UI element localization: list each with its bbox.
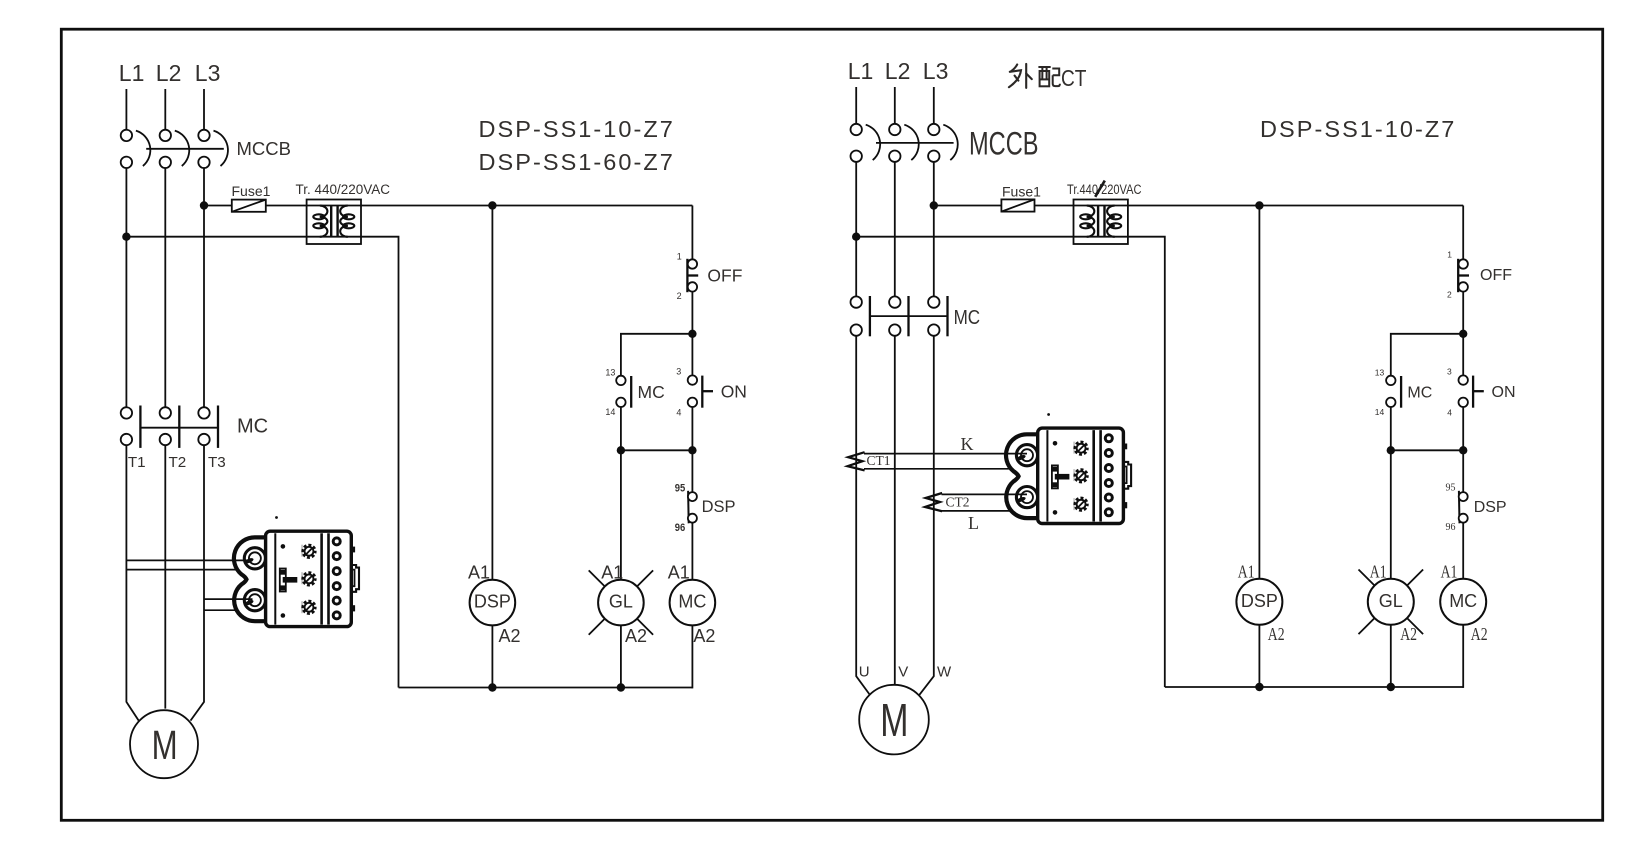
contact DSP 95-96 (right) [1459, 491, 1468, 524]
wire relay hole 2 return [204, 609, 237, 611]
svg-text:ON: ON [1492, 384, 1516, 401]
svg-text:Fuse1: Fuse1 [232, 183, 271, 199]
node junction GL [617, 446, 625, 454]
wire V phase to motor (right) [894, 336, 896, 685]
svg-text:95: 95 [675, 483, 686, 495]
node junction below OFF [688, 330, 696, 338]
svg-text:CT1: CT1 [867, 453, 891, 468]
svg-text:MC: MC [678, 592, 706, 612]
wire branch to MC aux (right) [1391, 334, 1463, 376]
wire L1 MCCB to MC (right) [855, 162, 857, 297]
svg-text:L3: L3 [195, 60, 221, 86]
wire ON to lower junction [691, 407, 693, 492]
svg-text:DSP-SS1-10-Z7: DSP-SS1-10-Z7 [479, 116, 675, 142]
svg-text:A1: A1 [468, 563, 490, 583]
svg-text:L2: L2 [156, 60, 182, 86]
wire T3 to motor [191, 445, 205, 720]
wire DSP coil to rail [491, 625, 493, 687]
svg-text:DSP-SS1-10-Z7: DSP-SS1-10-Z7 [1260, 116, 1456, 142]
coil MC (right) [1440, 579, 1486, 625]
wire MC aux to lower junction (right) [1390, 407, 1392, 451]
svg-text:CT: CT [1061, 65, 1087, 91]
svg-text:Tr.440/220VAC: Tr.440/220VAC [1067, 182, 1142, 197]
svg-text:DSP: DSP [702, 498, 736, 516]
wire secondary bottom (right) [856, 237, 1165, 687]
node rail junction DSP (right) [1255, 683, 1263, 691]
lamp GL (left) [589, 570, 653, 634]
svg-text:W: W [937, 664, 952, 681]
svg-text:U: U [859, 664, 870, 681]
coil MC (left) [670, 580, 716, 626]
wire ON to lower junction (right) [1462, 407, 1464, 492]
wire L2 drop to MCCB (right) [894, 87, 896, 124]
transformer Tr (right) [1074, 200, 1128, 245]
svg-text:13: 13 [1375, 368, 1385, 378]
wire GL drop [620, 450, 622, 580]
svg-text:K: K [961, 434, 974, 454]
svg-text:DSP: DSP [1241, 591, 1278, 611]
contact DSP 95-96 (left) [688, 491, 697, 524]
wire CT1 return [864, 468, 1010, 470]
svg-text:A1: A1 [1238, 561, 1255, 581]
svg-text:DSP: DSP [1474, 499, 1507, 516]
wire DSP coil drop (right) [1258, 206, 1260, 579]
node rail junction GL [617, 683, 625, 691]
svg-text:OFF: OFF [707, 266, 742, 286]
wire control top rail (left) [204, 205, 692, 207]
svg-text:Fuse1: Fuse1 [1002, 184, 1041, 200]
node junction L3-fuse (right) [930, 201, 938, 209]
wire MC aux to lower junction [620, 407, 622, 451]
svg-text:96: 96 [1446, 522, 1456, 533]
transformer Tr (left) [307, 200, 361, 245]
coil DSP (left) [470, 580, 516, 626]
svg-text:A2: A2 [499, 626, 521, 646]
svg-text:T2: T2 [169, 454, 187, 471]
overload relay DSP body (left) [234, 531, 359, 626]
wire T1 into relay hole 1 [126, 559, 252, 561]
wire L2 drop to MCCB [164, 89, 166, 130]
svg-text:A1: A1 [601, 563, 623, 583]
wire GL to rail [620, 625, 622, 687]
svg-text:A1: A1 [1370, 561, 1387, 581]
wire L1 MCCB to MC contactor [125, 168, 127, 407]
node junction GL (right) [1387, 446, 1395, 454]
wire CT2 return [942, 510, 1010, 512]
svg-text:Tr. 440/220VAC: Tr. 440/220VAC [296, 182, 391, 197]
pushbutton ON (left) [688, 375, 713, 407]
wire DSP contact to MC coil (right) [1462, 522, 1464, 578]
svg-text:1: 1 [1447, 250, 1452, 260]
wire lower junction link (right) [1391, 449, 1463, 451]
node junction L3-fuse [200, 201, 208, 209]
svg-text:MC: MC [1449, 591, 1477, 611]
wire OFF to junction [691, 292, 693, 376]
symbol CT1 zigzag [848, 452, 865, 470]
svg-text:4: 4 [1447, 408, 1452, 418]
svg-text:14: 14 [605, 407, 615, 417]
svg-text:T1: T1 [128, 454, 146, 471]
node rail junction DSP [488, 683, 496, 691]
svg-text:96: 96 [675, 522, 686, 534]
fuse Fuse1 (right) [1001, 199, 1034, 211]
wire T3 into relay hole 2 [204, 598, 253, 600]
svg-text:A2: A2 [1471, 624, 1488, 644]
svg-text:MC: MC [1407, 384, 1432, 401]
svg-text:3: 3 [676, 367, 681, 377]
wire control top rail (right) [934, 205, 1463, 207]
wire CT2 lead into relay hole 2 [942, 493, 1028, 495]
svg-text:MC: MC [237, 416, 268, 438]
svg-text:3: 3 [1447, 367, 1452, 377]
wire OFF drop [691, 206, 693, 260]
wire secondary bottom (left) [126, 237, 398, 688]
wire OFF to junction (right) [1462, 292, 1464, 376]
svg-text:M: M [880, 694, 908, 746]
svg-text:A1: A1 [668, 563, 690, 583]
svg-text:T3: T3 [208, 454, 226, 471]
decorative speck (right) [1047, 413, 1050, 416]
wire L3 MCCB to MC (right) [933, 162, 935, 297]
svg-text:OFF: OFF [1480, 267, 1512, 284]
svg-text:DSP: DSP [474, 592, 511, 612]
svg-text:DSP-SS1-60-Z7: DSP-SS1-60-Z7 [479, 149, 675, 175]
node junction MC chain [688, 446, 696, 454]
svg-text:L1: L1 [119, 60, 145, 86]
wire OFF drop (right) [1462, 206, 1464, 260]
wire T2 to motor [164, 445, 166, 708]
svg-text:95: 95 [1446, 483, 1456, 494]
wire L2 MCCB to MC (right) [894, 162, 896, 297]
contactor MC power poles (left) [121, 406, 218, 448]
motor M (left) [130, 710, 198, 778]
overload relay DSP body (right) [1006, 428, 1131, 523]
wire L1 drop to MCCB [125, 89, 127, 130]
svg-text:CT2: CT2 [946, 495, 970, 510]
pushbutton OFF (right) [1458, 259, 1469, 292]
contact MC aux 13-14 (left) [616, 376, 631, 408]
svg-text:A2: A2 [693, 626, 715, 646]
node junction L1-secondary [122, 233, 130, 241]
svg-text:2: 2 [677, 291, 682, 301]
node junction DSP feed (right) [1255, 201, 1263, 209]
wire DSP contact to MC coil [691, 522, 693, 579]
svg-text:A2: A2 [625, 626, 647, 646]
node rail junction GL (right) [1387, 683, 1395, 691]
wire MC coil to rail [691, 625, 693, 688]
svg-text:V: V [898, 664, 908, 681]
svg-text:L: L [968, 513, 979, 533]
svg-text:GL: GL [1379, 591, 1403, 611]
svg-text:A1: A1 [1441, 561, 1458, 581]
svg-text:14: 14 [1375, 407, 1385, 417]
decorative speck [275, 516, 278, 519]
svg-text:L3: L3 [923, 58, 949, 84]
wire bottom rail (right) [1165, 686, 1463, 688]
pushbutton ON (right) [1459, 375, 1484, 407]
wire T1 to motor [126, 445, 138, 720]
node junction below OFF (right) [1459, 330, 1467, 338]
wire L3 MCCB to MC contactor [203, 168, 205, 407]
contact MC aux 13-14 (right) [1386, 376, 1401, 408]
pushbutton OFF (left) [687, 259, 698, 292]
node junction L1-secondary (right) [852, 233, 860, 241]
fuse Fuse1 (left) [232, 200, 266, 212]
label 外配CT glyph 配 [1038, 67, 1060, 86]
svg-text:A2: A2 [1268, 624, 1285, 644]
svg-text:4: 4 [676, 408, 681, 418]
svg-text:L1: L1 [848, 58, 874, 84]
wire GL to rail (right) [1390, 625, 1392, 687]
svg-text:ON: ON [721, 382, 747, 402]
wire DSP coil to rail (right) [1258, 625, 1260, 687]
svg-text:2: 2 [1447, 289, 1452, 299]
contactor MC power poles (right) [851, 296, 948, 336]
wire L3 drop to MCCB (right) [933, 87, 935, 124]
svg-text:GL: GL [609, 592, 633, 612]
wire relay hole 1 return [126, 569, 237, 571]
breaker MCCB (left) 3 poles [121, 130, 228, 168]
node junction DSP feed [488, 201, 496, 209]
svg-text:MCCB: MCCB [969, 125, 1039, 161]
node junction MC chain (right) [1459, 446, 1467, 454]
wire bottom rail (left) [399, 687, 693, 689]
wire MC coil to rail (right) [1462, 625, 1464, 688]
lamp GL (right) [1359, 570, 1424, 635]
symbol CT2 zigzag [925, 493, 942, 511]
wire U phase to motor (right) [856, 336, 870, 695]
decorative big slash over label [1095, 181, 1105, 197]
svg-text:A2: A2 [1400, 624, 1417, 644]
svg-text:M: M [152, 722, 178, 768]
wire W phase to motor (right) [919, 336, 934, 695]
breaker MCCB (right) 3 poles [851, 124, 958, 162]
svg-text:MCCB: MCCB [237, 138, 291, 159]
wire DSP coil drop [491, 206, 493, 580]
wire branch to MC aux [621, 334, 693, 376]
svg-text:13: 13 [605, 368, 615, 378]
wire L3 drop to MCCB [203, 89, 205, 130]
wire lower junction link [621, 449, 693, 451]
svg-text:MC: MC [954, 307, 981, 329]
svg-text:L2: L2 [885, 58, 911, 84]
wire GL drop (right) [1390, 450, 1392, 579]
wire CT1 K lead into relay hole 1 [864, 453, 1027, 455]
svg-text:MC: MC [638, 382, 665, 402]
motor M (right) [859, 685, 929, 755]
label 外配CT glyph 外 [1009, 64, 1032, 88]
coil DSP (right) [1236, 579, 1282, 625]
wire L1 drop to MCCB (right) [855, 87, 857, 124]
svg-text:1: 1 [677, 251, 682, 261]
wire L2 MCCB to MC contactor [164, 168, 166, 407]
